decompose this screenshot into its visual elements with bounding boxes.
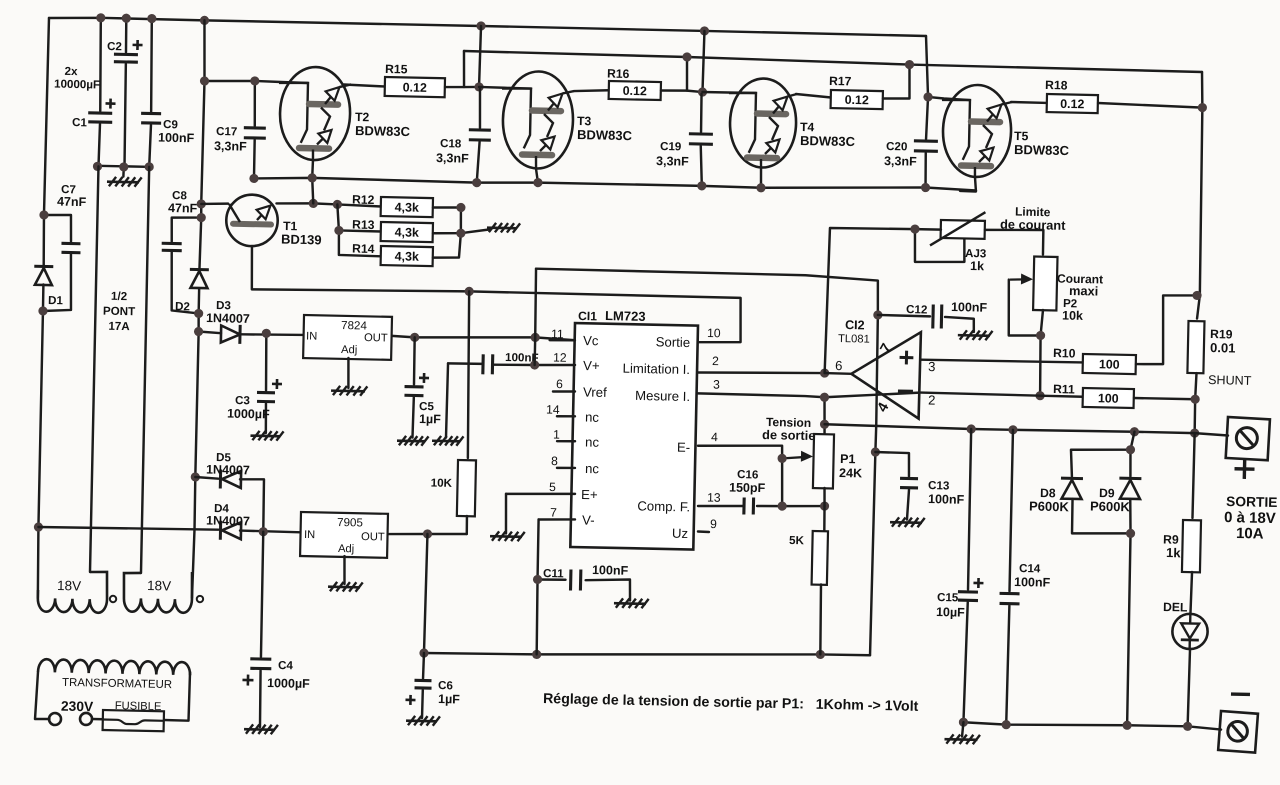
svg-text:6: 6 bbox=[556, 377, 563, 391]
wire 7905 OUT to 10K bottom bbox=[388, 532, 467, 535]
resistor R13 4.3k bbox=[381, 222, 433, 242]
wire TL081 output up to AJ3 bbox=[825, 227, 915, 375]
wire R12 right bbox=[433, 207, 461, 208]
svg-text:CI1: CI1 bbox=[578, 309, 597, 323]
svg-text:5K: 5K bbox=[789, 534, 805, 547]
wire C11 right to ground bbox=[585, 579, 630, 601]
diode D2 pointing up bbox=[189, 269, 208, 288]
svg-text:7905: 7905 bbox=[337, 516, 363, 530]
wire C7 top branch bbox=[43, 214, 71, 241]
svg-text:24K: 24K bbox=[839, 466, 862, 480]
capacitor C20 3.3nF bbox=[914, 141, 938, 152]
terminal circle 230V right bbox=[80, 713, 92, 725]
wire pin 6 stub bbox=[553, 390, 575, 393]
svg-text:10: 10 bbox=[707, 326, 721, 340]
nodes rail C left bbox=[249, 172, 317, 184]
wire T4 collector to R17 bbox=[796, 94, 831, 98]
svg-text:C1: C1 bbox=[72, 116, 88, 129]
wire T3 emitter bbox=[536, 169, 538, 183]
svg-text:TL081: TL081 bbox=[838, 333, 870, 346]
wire D3 cathode to 7824 IN bbox=[242, 334, 305, 336]
wire pin 4 E- down to Comp node bbox=[697, 444, 784, 506]
ground C4 bbox=[244, 724, 278, 734]
wire V+ riser bbox=[534, 269, 537, 365]
diode D5 1N4007 pointing left bbox=[220, 470, 241, 489]
nodes R12-R14 ties bbox=[334, 200, 466, 238]
wire AJ3 lower loop bbox=[914, 229, 965, 263]
wire R16 right bbox=[661, 90, 703, 92]
resistor R15 0.12 bbox=[385, 77, 445, 97]
resistor R9 1k vertical bbox=[1182, 520, 1201, 572]
wire bottom output bus bbox=[963, 722, 1221, 730]
wire negative rail drop bbox=[424, 534, 427, 653]
nodes on ground bus bbox=[93, 161, 154, 172]
capacitor C2 (10000uF) bbox=[114, 54, 138, 62]
capacitor C17 3.3nF bbox=[244, 128, 266, 138]
svg-text:C2: C2 bbox=[107, 40, 122, 53]
nodes on rail A bbox=[96, 13, 709, 36]
plus symbol TL081 bbox=[899, 351, 913, 365]
node 7905 OUT branch bbox=[423, 529, 432, 538]
wire T1 collector to R12 bbox=[276, 203, 381, 207]
nodes T2 stage bbox=[200, 75, 484, 91]
resistor R16 0.12 bbox=[609, 81, 661, 100]
svg-text:0.12: 0.12 bbox=[623, 84, 648, 99]
plus C6 bbox=[405, 695, 415, 705]
svg-text:Uz: Uz bbox=[672, 526, 688, 541]
nodes on negative bus bbox=[419, 641, 825, 666]
wire ground stem bbox=[122, 167, 125, 177]
wiper arrow P2 bbox=[1010, 278, 1027, 281]
capacitor C6 1uF bbox=[414, 680, 431, 688]
wire C11 left bbox=[538, 578, 566, 581]
transistor T1 BD139 bbox=[226, 194, 278, 246]
svg-text:R13: R13 bbox=[352, 218, 375, 232]
wire down to C4 bbox=[261, 532, 264, 657]
wire rail A (top +V rail) bbox=[49, 17, 926, 37]
wire C18 top bbox=[479, 89, 481, 128]
regulator U3 7905 bbox=[300, 512, 388, 558]
nodes + output bus bbox=[966, 424, 1139, 438]
resistor R19 0.01 shunt bbox=[1187, 321, 1204, 373]
transistor T5 BDW83C bbox=[940, 84, 1012, 177]
svg-text:0.12: 0.12 bbox=[1060, 97, 1085, 112]
wire T3 base rail bbox=[479, 87, 531, 89]
wire C1 top bbox=[99, 18, 102, 111]
wire C9 top bbox=[150, 19, 153, 112]
resistor 10K vertical bbox=[457, 460, 476, 516]
svg-text:C14: C14 bbox=[1019, 562, 1041, 575]
ground 7905 Adj bbox=[328, 582, 363, 592]
wire left column top to D1 bbox=[43, 18, 49, 266]
transistor T2 BDW83C bbox=[277, 66, 351, 160]
wire 10K bottom bbox=[465, 516, 468, 534]
svg-text:Vc: Vc bbox=[583, 333, 599, 348]
ground R12-R14 bbox=[487, 223, 520, 233]
ground 7824 Adj bbox=[331, 386, 367, 396]
nodes bottom bus bbox=[959, 717, 1193, 733]
node pin 12 bbox=[530, 360, 539, 369]
wire bus to D9 top bbox=[1130, 432, 1134, 450]
svg-text:10K: 10K bbox=[431, 477, 453, 490]
capacitor C7 bbox=[61, 243, 80, 252]
svg-text:100nF: 100nF bbox=[928, 492, 965, 507]
svg-text:P600K: P600K bbox=[1090, 499, 1131, 515]
wire C2 bottom bbox=[124, 64, 127, 166]
plus C5 bbox=[419, 373, 429, 383]
diode D9 P600K bbox=[1119, 478, 1141, 499]
svg-text:maxi: maxi bbox=[1069, 283, 1098, 299]
nodes on left column bbox=[33, 210, 50, 531]
svg-text:3,3nF: 3,3nF bbox=[214, 139, 247, 154]
wire T5 base rail bbox=[928, 97, 970, 100]
svg-text:SORTIE: SORTIE bbox=[1226, 494, 1278, 510]
wire DEL to bottom bus bbox=[1188, 649, 1190, 726]
svg-text:5: 5 bbox=[549, 480, 556, 494]
capacitor C4 1000uF bbox=[250, 659, 271, 669]
svg-text:BD139: BD139 bbox=[281, 232, 322, 248]
svg-text:8: 8 bbox=[551, 454, 558, 468]
wire TL081 supply pins riser (pin7/pin4) bbox=[870, 315, 879, 655]
svg-text:Vref: Vref bbox=[583, 385, 607, 401]
wire + output bus bbox=[824, 424, 1228, 435]
wire D4 anode to 7905 IN bbox=[240, 531, 301, 533]
svg-text:BDW83C: BDW83C bbox=[800, 133, 856, 149]
svg-text:BDW83C: BDW83C bbox=[355, 123, 411, 139]
transformer secondary winding 2 (18V) bbox=[123, 571, 192, 613]
svg-text:100nF: 100nF bbox=[592, 563, 629, 578]
wire T1 emitter to LM723 pin 10 bbox=[250, 246, 742, 343]
node AJ3 left bbox=[910, 224, 919, 233]
resistor R12 4.3k bbox=[381, 197, 433, 217]
resistor R18 0.12 bbox=[1047, 94, 1098, 113]
wire R18 right to shunt node bbox=[1098, 103, 1202, 108]
svg-text:47nF: 47nF bbox=[168, 201, 198, 216]
wire E+ to ground bbox=[505, 494, 507, 534]
potentiometer P2 10k bbox=[1033, 257, 1057, 311]
potentiometer P1 24K bbox=[813, 434, 834, 488]
wire to R13 bbox=[337, 204, 382, 231]
svg-text:10A: 10A bbox=[1236, 525, 1264, 543]
svg-text:4,3k: 4,3k bbox=[395, 249, 420, 264]
minus symbol output bbox=[1231, 692, 1250, 696]
wire C14 top bbox=[1009, 430, 1012, 591]
ground C3 bbox=[250, 431, 283, 441]
capacitor C16 150pF bbox=[744, 497, 754, 514]
wire C18 bottom bbox=[477, 142, 480, 183]
svg-text:1k: 1k bbox=[970, 259, 984, 273]
svg-text:BDW83C: BDW83C bbox=[577, 127, 633, 143]
wire rail B (upper collector rail) bbox=[464, 51, 1202, 72]
wire pin 12 stub bbox=[493, 363, 576, 366]
svg-text:10k: 10k bbox=[1062, 309, 1083, 323]
wire IN node down to C3 bbox=[265, 333, 267, 390]
wire R9 to DEL bbox=[1190, 572, 1192, 613]
svg-text:Sortie: Sortie bbox=[656, 334, 691, 350]
svg-text:E+: E+ bbox=[581, 487, 598, 502]
svg-text:10µF: 10µF bbox=[936, 605, 965, 620]
svg-text:Mesure I.: Mesure I. bbox=[635, 388, 690, 404]
svg-text:Adj: Adj bbox=[338, 543, 354, 555]
svg-text:3,3nF: 3,3nF bbox=[884, 154, 917, 169]
nodes D8/D9 bbox=[1124, 445, 1137, 538]
nodes TL081 bbox=[818, 309, 883, 457]
nodes E-/Comp bbox=[776, 454, 830, 512]
wire 100nF left bbox=[448, 362, 483, 365]
svg-text:R18: R18 bbox=[1045, 78, 1068, 92]
capacitor C5 1uF bbox=[404, 387, 423, 396]
wire TL081 +input to R10 bbox=[921, 359, 1083, 363]
svg-text:LM723: LM723 bbox=[605, 308, 646, 324]
wire C13 top bbox=[875, 452, 910, 477]
svg-text:1µF: 1µF bbox=[438, 692, 460, 706]
plus output symbol bbox=[1234, 459, 1254, 479]
wire T1 base bbox=[201, 203, 228, 204]
svg-text:R15: R15 bbox=[385, 62, 408, 76]
svg-text:Limitation I.: Limitation I. bbox=[622, 361, 690, 377]
resistor 5K vertical bbox=[812, 531, 828, 585]
node D4/D5 junction bbox=[259, 527, 268, 536]
trimmer AJ3 1k bbox=[941, 220, 985, 239]
svg-text:4,3k: 4,3k bbox=[395, 225, 420, 240]
wire left column D1 to winding 1 bbox=[37, 284, 45, 598]
wire C6 to ground bbox=[421, 690, 424, 718]
svg-text:IN: IN bbox=[304, 529, 315, 541]
wire column D2 up to rail A bbox=[199, 20, 205, 268]
wire D9 top stub bbox=[1130, 450, 1131, 477]
wire C9 bottom bbox=[149, 125, 151, 167]
svg-text:14: 14 bbox=[546, 403, 560, 417]
svg-text:6: 6 bbox=[835, 358, 843, 373]
svg-text:1000µF: 1000µF bbox=[227, 407, 270, 422]
svg-text:2: 2 bbox=[928, 393, 936, 408]
svg-text:P1: P1 bbox=[840, 452, 856, 466]
minus symbol TL081 bbox=[898, 389, 913, 392]
wire R15 right bbox=[445, 86, 479, 88]
wire pin 11 stub bbox=[550, 340, 575, 341]
svg-text:CI2: CI2 bbox=[845, 318, 865, 332]
trimmer slash AJ3 bbox=[930, 211, 985, 247]
wire C3 to ground bbox=[265, 403, 266, 433]
capacitor C1 (10000uF) bbox=[88, 113, 112, 123]
capacitor C14 100nF bbox=[999, 593, 1019, 604]
svg-text:nc: nc bbox=[585, 410, 600, 425]
wire down to C6 bbox=[422, 653, 425, 679]
ground top-left filter bank bbox=[107, 177, 142, 187]
regulator U2 7824 bbox=[303, 315, 392, 360]
wire C15 bottom bbox=[963, 602, 967, 722]
svg-text:de courant: de courant bbox=[1000, 216, 1066, 232]
transformer primary coil bbox=[38, 659, 190, 675]
svg-text:Comp. F.: Comp. F. bbox=[637, 498, 690, 514]
wire 7824 Adj to ground bbox=[348, 358, 349, 388]
svg-text:0.12: 0.12 bbox=[403, 80, 428, 95]
svg-text:0.12: 0.12 bbox=[845, 93, 870, 108]
svg-text:3: 3 bbox=[928, 359, 936, 374]
svg-text:C12: C12 bbox=[906, 303, 928, 316]
wire T3 collector to R16 bbox=[574, 90, 609, 92]
wire OUT down to C5 bbox=[414, 337, 415, 384]
capacitor C15 10uF bbox=[958, 592, 978, 601]
svg-text:11: 11 bbox=[551, 327, 564, 341]
wire C14 bottom bbox=[1006, 606, 1009, 725]
capacitor C11 100nF bbox=[571, 569, 581, 590]
svg-text:nc: nc bbox=[585, 434, 600, 449]
svg-text:4,3k: 4,3k bbox=[395, 200, 420, 215]
ground C6 bbox=[406, 716, 440, 726]
wire D5 anode down to D4 node bbox=[239, 479, 264, 532]
svg-text:4: 4 bbox=[711, 430, 718, 444]
svg-text:R17: R17 bbox=[829, 74, 852, 88]
nodes P1 top riser bbox=[819, 393, 830, 429]
terminal circle 230V left bbox=[49, 713, 61, 725]
svg-text:2x: 2x bbox=[64, 65, 78, 78]
wire D2 column to D3 anode bbox=[199, 332, 222, 334]
nodes on D2 column bbox=[191, 199, 207, 481]
wire R17 right up to rail B bbox=[883, 64, 910, 99]
wire R13 right bbox=[433, 233, 461, 234]
wire TL081 output to apex bbox=[825, 372, 852, 375]
nodes T4 stage bbox=[697, 56, 914, 196]
svg-text:FUSIBLE: FUSIBLE bbox=[115, 700, 162, 713]
svg-text:3,3nF: 3,3nF bbox=[656, 154, 689, 169]
wire pin 3 Mesure I. to TL081 -input bbox=[698, 388, 920, 399]
capacitor C3 1000uF bbox=[257, 392, 275, 401]
transformer secondary winding 1 (18V) bbox=[38, 571, 108, 613]
terminal circle winding 1 bbox=[110, 596, 117, 603]
capacitor C18 3.3nF bbox=[469, 130, 491, 140]
svg-text:P600K: P600K bbox=[1029, 498, 1070, 514]
wire T4 emitter bbox=[759, 167, 762, 188]
diode D4 1N4007 pointing left bbox=[220, 521, 241, 540]
wire C19 top bbox=[701, 94, 702, 132]
svg-text:13: 13 bbox=[707, 491, 721, 505]
wire P2 bottom to R11 wire bbox=[1039, 310, 1043, 396]
wire R14 right tie bbox=[433, 207, 461, 258]
op-amp/regulator CI1 LM723 bbox=[570, 323, 698, 550]
capacitor 100nF at pin 12 bbox=[483, 354, 493, 374]
wire AJ3 right to P2 top bbox=[984, 229, 1043, 255]
svg-text:V-: V- bbox=[582, 513, 595, 528]
svg-text:V+: V+ bbox=[583, 358, 600, 373]
svg-text:C18: C18 bbox=[440, 137, 462, 150]
svg-text:R12: R12 bbox=[352, 193, 375, 207]
svg-text:DEL: DEL bbox=[1163, 600, 1188, 615]
svg-text:150pF: 150pF bbox=[729, 480, 766, 495]
wire C17 top bbox=[254, 81, 256, 126]
svg-text:nc: nc bbox=[585, 461, 600, 476]
resistor R10 100 bbox=[1083, 354, 1136, 374]
svg-text:IN: IN bbox=[306, 330, 317, 342]
wire 5K bottom to negative bus bbox=[820, 585, 822, 655]
resistor R14 4.3k bbox=[381, 246, 433, 266]
nodes on Vc wire bbox=[410, 330, 540, 344]
wire R10 right to shunt top bbox=[1136, 294, 1197, 365]
plus C4 bbox=[242, 674, 253, 685]
wire C19 bottom bbox=[700, 146, 703, 186]
plus C3 bbox=[272, 379, 282, 389]
svg-text:100nF: 100nF bbox=[158, 131, 195, 146]
svg-text:de sortie: de sortie bbox=[762, 427, 816, 443]
svg-text:1N4007: 1N4007 bbox=[206, 311, 250, 326]
svg-text:C13: C13 bbox=[928, 479, 950, 492]
svg-text:9: 9 bbox=[710, 517, 717, 531]
wire C5 to ground bbox=[412, 397, 413, 437]
transistor T3 BDW83C bbox=[500, 71, 574, 169]
wire pin 2 to TL081 output bbox=[698, 370, 825, 375]
capacitor C12 100nF bbox=[933, 304, 942, 328]
wire shunt top bbox=[1197, 295, 1200, 318]
wire D8 top tie bbox=[1070, 448, 1130, 477]
wire C12 right to ground bbox=[945, 317, 974, 332]
capacitor C9 (100nF) bbox=[141, 113, 161, 123]
svg-text:1000µF: 1000µF bbox=[267, 676, 310, 691]
ground C13 bbox=[890, 517, 925, 527]
svg-text:R10: R10 bbox=[1053, 346, 1076, 360]
wire up to rail A bbox=[479, 26, 481, 87]
ground E+ bbox=[490, 531, 525, 541]
wire pin 1 stub bbox=[557, 440, 575, 443]
diode D1 (1N?) pointing up bbox=[34, 266, 53, 285]
wire C13 to ground bbox=[907, 490, 909, 520]
svg-text:C16: C16 bbox=[737, 468, 759, 481]
svg-text:C6: C6 bbox=[438, 679, 454, 692]
nodes T3 stage bbox=[472, 48, 708, 192]
wire C17 bottom bbox=[253, 140, 256, 178]
op-amp CI2 TL081 (pointing left) bbox=[850, 331, 920, 419]
nodes P2 bbox=[1035, 331, 1046, 401]
svg-text:12: 12 bbox=[553, 350, 567, 364]
wire down to P1 top bbox=[824, 397, 826, 434]
wire winding2 left leg up to C9 line bbox=[141, 167, 150, 573]
wire D9 bottom stub bbox=[1130, 499, 1132, 533]
wire C12 left bbox=[878, 315, 930, 316]
svg-text:Adj: Adj bbox=[341, 344, 357, 356]
svg-text:1k: 1k bbox=[1166, 545, 1182, 560]
svg-text:1N4007: 1N4007 bbox=[206, 514, 250, 529]
nodes T1 collector/emitter wires bbox=[307, 199, 476, 296]
svg-text:10000µF: 10000µF bbox=[54, 78, 100, 92]
nodes T5 stage bbox=[921, 92, 1207, 198]
wire winding1 to D4 cathode bbox=[38, 526, 218, 531]
svg-text:BDW83C: BDW83C bbox=[1014, 142, 1070, 158]
wire rectifier column winding2 up to D2 bbox=[192, 289, 200, 598]
wire D9 node to bottom bus bbox=[1127, 533, 1132, 725]
svg-text:C9: C9 bbox=[163, 118, 179, 131]
svg-text:17A: 17A bbox=[108, 320, 130, 333]
wire to rail B left end bbox=[463, 51, 465, 87]
wire rail C (emitter bus) bbox=[254, 173, 976, 193]
wire winding1 right leg up to C1 line bbox=[90, 166, 98, 572]
wire rail B right drop to shunt node bbox=[1197, 72, 1204, 295]
nodes shunt column bbox=[1189, 291, 1202, 438]
wire to 5K top bbox=[823, 506, 826, 531]
svg-text:R14: R14 bbox=[352, 242, 375, 256]
svg-text:47nF: 47nF bbox=[57, 195, 87, 210]
wire to ground R12-R14 bbox=[461, 229, 489, 234]
wire R11 right to shunt bottom bbox=[1134, 398, 1195, 399]
LED DEL bbox=[1172, 613, 1208, 649]
wire pin 8 stub bbox=[557, 466, 575, 469]
wire T2 collector to R15 bbox=[344, 85, 385, 87]
svg-text:100nF: 100nF bbox=[1014, 575, 1051, 590]
svg-text:D1: D1 bbox=[48, 294, 64, 307]
svg-text:100: 100 bbox=[1099, 357, 1120, 371]
svg-text:C15: C15 bbox=[937, 591, 959, 604]
svg-text:OUT: OUT bbox=[361, 531, 385, 543]
wire T4 base rail bbox=[702, 92, 755, 93]
svg-text:C20: C20 bbox=[886, 140, 908, 153]
